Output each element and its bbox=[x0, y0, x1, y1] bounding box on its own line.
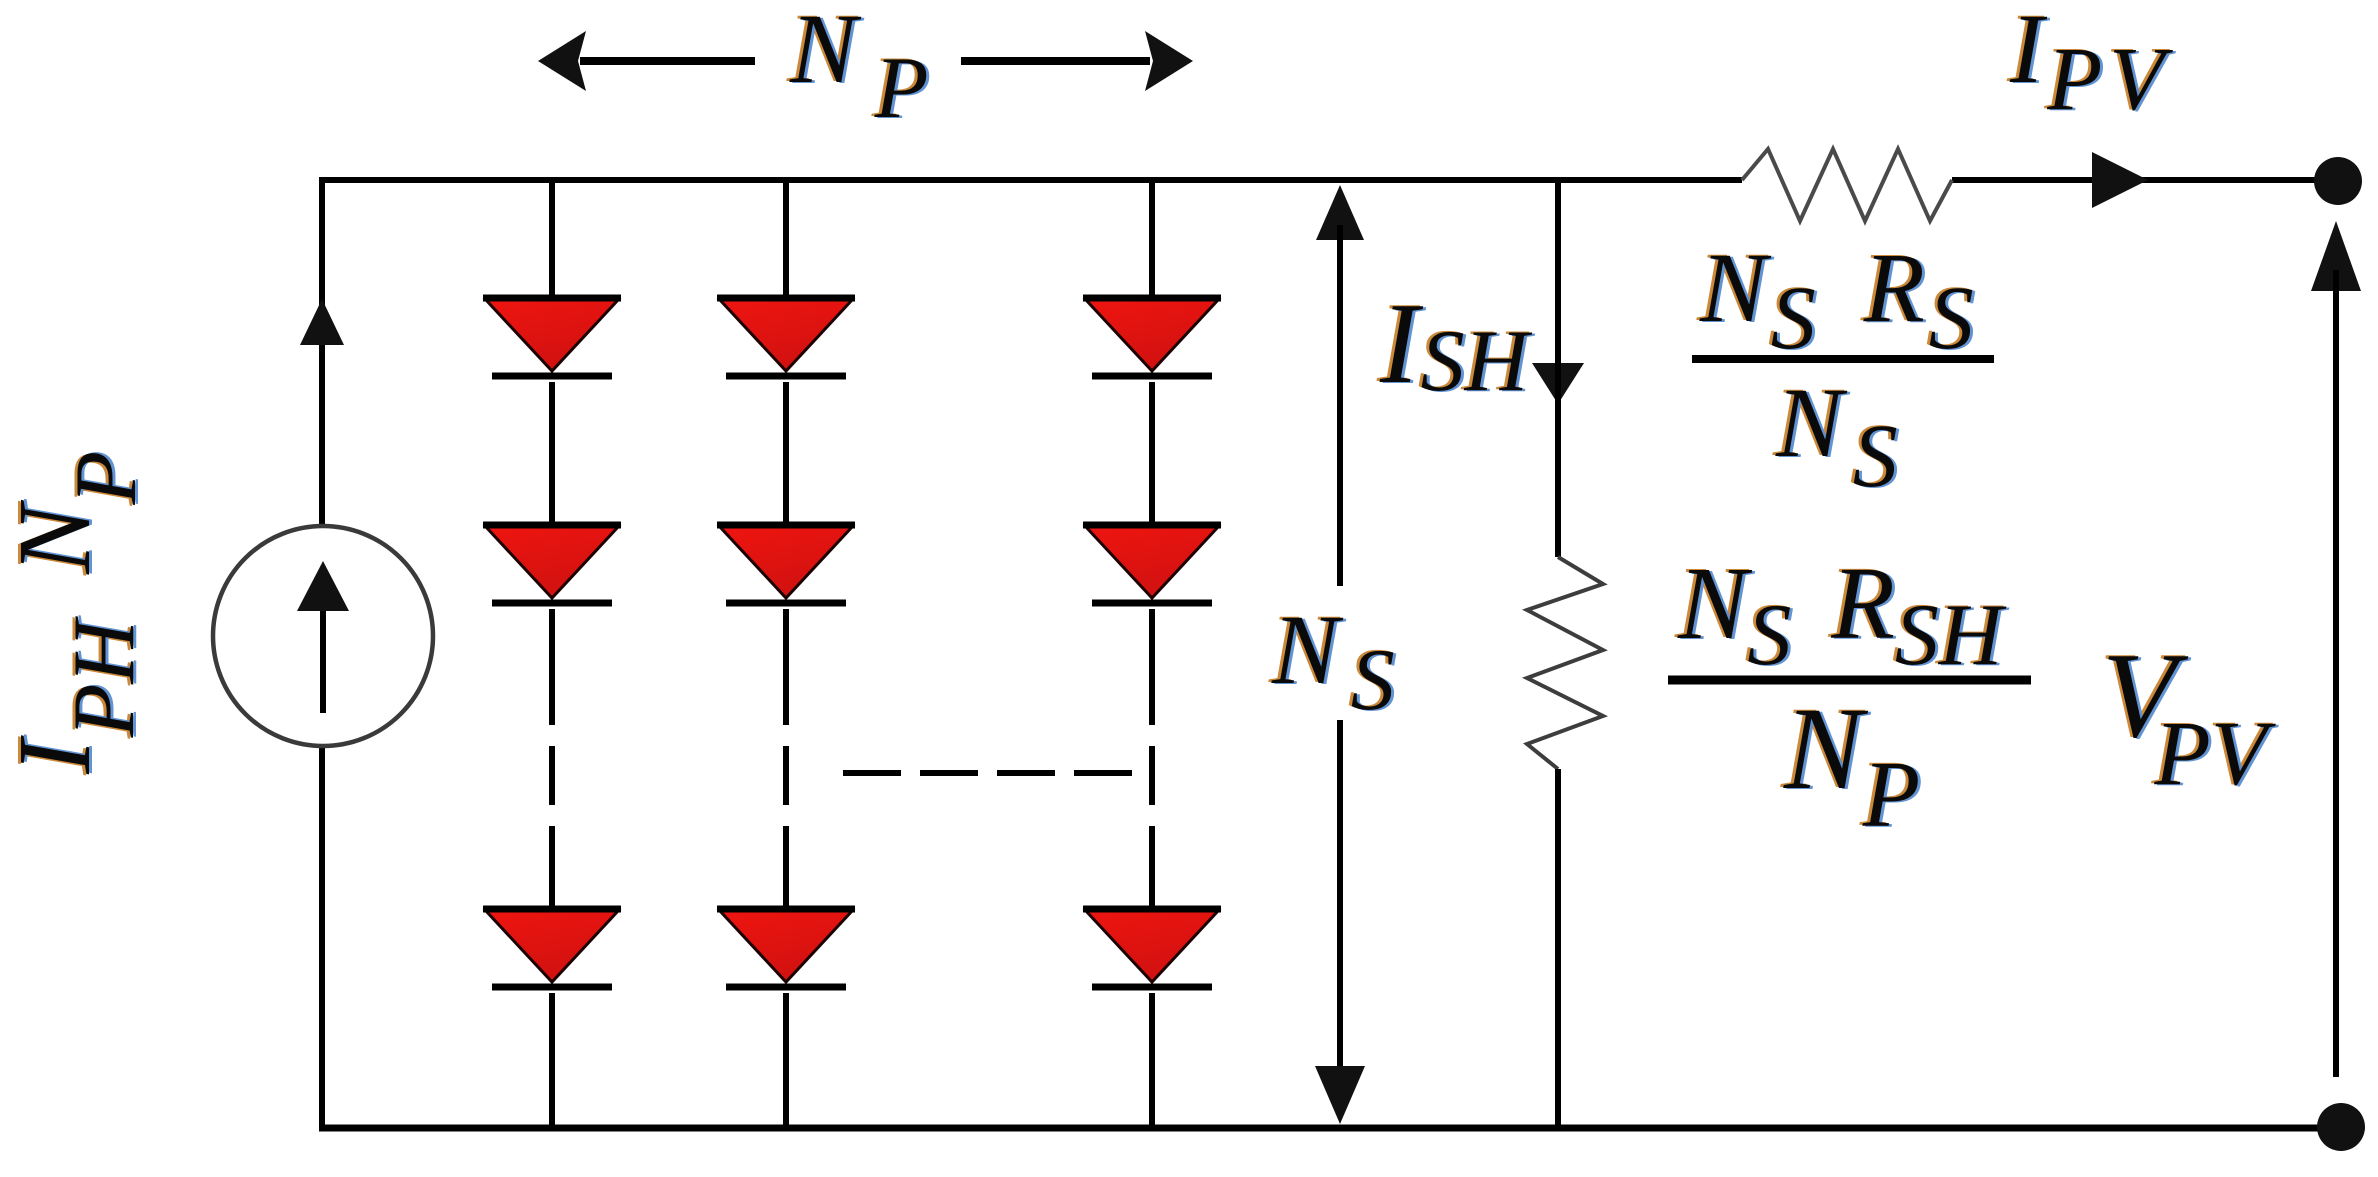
wire top bus left of series resistor bbox=[319, 177, 1742, 183]
diode D22 bbox=[720, 527, 852, 598]
label N_S R_S over N_S fraction numerator bbox=[1696, 231, 1977, 369]
wire col2 mid bbox=[783, 382, 789, 526]
diode string column 2 bbox=[717, 180, 855, 1131]
N_S measure arrow upper bbox=[1316, 185, 1364, 586]
diode D13 bbox=[486, 911, 618, 982]
wire left rail lower bbox=[319, 746, 325, 1131]
wire col2 below D22 bbox=[783, 609, 789, 725]
diode D23 bbox=[720, 911, 852, 982]
arrowhead current direction on left rail bbox=[300, 299, 344, 345]
label I_SH bbox=[1376, 279, 1536, 411]
label N_S fraction denominator bbox=[1772, 366, 1901, 507]
resistor RS zigzag bbox=[1742, 149, 1952, 221]
fraction bar RSH bbox=[1668, 676, 2031, 685]
diode D32 bbox=[1086, 527, 1218, 598]
diode D21 bbox=[720, 300, 852, 371]
node terminal top right bbox=[2314, 157, 2362, 205]
wire col2 top bbox=[783, 180, 789, 299]
label I_PV bbox=[2006, 0, 2176, 130]
diode D12 bbox=[486, 527, 618, 598]
label N_P bbox=[786, 0, 931, 138]
arrowhead I_PV direction on top bus bbox=[2092, 152, 2148, 208]
wire col2 lower solid bbox=[783, 826, 789, 908]
wire bottom bus bbox=[319, 1125, 2322, 1132]
label N_S measure bbox=[1268, 593, 1398, 730]
fraction bar RS bbox=[1692, 355, 1994, 363]
label I_PH N_P rotated bbox=[0, 450, 158, 776]
diode D11 bbox=[486, 300, 618, 371]
wire col3 top bbox=[1149, 180, 1155, 299]
wire col3 mid bbox=[1149, 382, 1155, 526]
wire dashed ellipsis between column 2 and 3 bbox=[843, 770, 1132, 776]
wire col2 dash segment bbox=[783, 746, 789, 805]
resistor RSH zigzag bbox=[1527, 557, 1603, 769]
N_S measure arrow lower bbox=[1315, 720, 1365, 1124]
label V_PV bbox=[2099, 627, 2280, 805]
diode D33 bbox=[1086, 911, 1218, 982]
diode D31 bbox=[1086, 300, 1218, 371]
wire col1 top bbox=[549, 180, 555, 299]
N_P span arrow right half bbox=[961, 31, 1193, 91]
wire shunt branch upper bbox=[1555, 180, 1561, 557]
wire left rail upper bbox=[319, 177, 325, 528]
current source U1 arrow bbox=[297, 561, 349, 713]
wire top bus right of series resistor bbox=[1952, 177, 2322, 183]
V_PV measure arrow right rail bbox=[2311, 221, 2361, 1077]
current source U1 circle bbox=[213, 526, 433, 746]
diode string column 1 bbox=[483, 180, 621, 1131]
wire col1 lower solid bbox=[549, 826, 555, 908]
wire col3 bottom bbox=[1149, 993, 1155, 1131]
diode string column 3 bbox=[1083, 180, 1221, 1131]
N_P span arrow left half bbox=[538, 31, 755, 91]
wire col3 dash segment bbox=[1149, 746, 1155, 805]
label N_S R_SH over N_P fraction numerator bbox=[1674, 545, 2010, 685]
wire col1 mid bbox=[549, 382, 555, 526]
label N_P fraction denominator bbox=[1780, 682, 1923, 848]
wire col1 below D12 bbox=[549, 609, 555, 725]
wire col3 below D32 bbox=[1149, 609, 1155, 725]
wire col1 dash segment bbox=[549, 746, 555, 805]
wire col1 bottom bbox=[549, 993, 555, 1131]
node terminal bottom right bbox=[2317, 1103, 2365, 1151]
wire col3 lower solid bbox=[1149, 826, 1155, 908]
wire col2 bottom bbox=[783, 993, 789, 1131]
wire shunt branch lower bbox=[1555, 769, 1561, 1131]
arrowhead I_SH direction on shunt branch bbox=[1532, 363, 1584, 404]
